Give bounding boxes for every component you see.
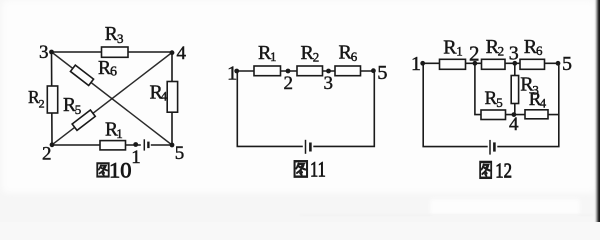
svg-text:R: R [443,37,457,59]
svg-text:1: 1 [456,44,463,59]
svg-text:12: 12 [495,160,512,183]
svg-text:1: 1 [227,63,237,85]
svg-text:1: 1 [131,147,141,168]
svg-text:4: 4 [161,88,168,103]
svg-text:5: 5 [377,62,387,84]
svg-text:11: 11 [310,157,326,182]
svg-text:2: 2 [469,41,480,65]
svg-text:3: 3 [324,73,334,94]
svg-text:1: 1 [270,49,277,64]
svg-text:2: 2 [42,143,52,164]
svg-text:4: 4 [509,114,519,135]
svg-text:1: 1 [411,53,421,75]
svg-text:6: 6 [536,43,543,58]
svg-text:3: 3 [117,31,124,46]
svg-text:6: 6 [110,65,117,80]
svg-text:R: R [105,24,118,45]
svg-text:5: 5 [75,102,82,117]
svg-text:6: 6 [351,49,358,64]
svg-text:4: 4 [540,95,547,110]
svg-text:1: 1 [116,126,123,141]
svg-text:2: 2 [313,49,320,64]
svg-text:4: 4 [177,43,187,64]
svg-text:3: 3 [39,42,49,63]
svg-text:5: 5 [175,143,185,164]
svg-text:2: 2 [498,44,505,59]
svg-text:2: 2 [39,97,45,111]
svg-text:3: 3 [509,43,519,65]
svg-text:10: 10 [109,158,132,183]
svg-text:3: 3 [532,83,539,98]
svg-text:5: 5 [562,53,572,75]
svg-text:2: 2 [284,73,294,94]
svg-text:5: 5 [496,95,503,110]
